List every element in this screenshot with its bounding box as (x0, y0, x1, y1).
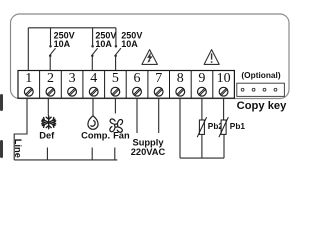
wire: terminal 7 supply (158, 98, 160, 133)
terminal strip block (18, 71, 234, 99)
svg-text:6: 6 (134, 71, 141, 86)
wire: terminal 5 to fan icon (114, 98, 116, 113)
wire: terminal 8 sensor common (179, 98, 181, 158)
wire: sensor bottom bus (180, 157, 224, 159)
svg-text:10A: 10A (121, 39, 138, 49)
wire: Pb2 down to bus (201, 134, 203, 158)
warning triangle W1 (high voltage) (142, 50, 158, 65)
fuse F1 (250V 10A) to terminal 2 (49, 28, 56, 71)
svg-text:10A: 10A (95, 39, 112, 49)
terminal numbers 1-10 (25, 71, 230, 86)
svg-text:Fan: Fan (113, 131, 130, 141)
wire: Pb1 down to bus (223, 134, 225, 158)
svg-text:Def: Def (39, 131, 55, 141)
optional copy-key connector (237, 83, 285, 96)
wire: fan stub (114, 148, 116, 160)
svg-text:Pb1: Pb1 (230, 121, 246, 131)
terminal screws (24, 87, 228, 96)
svg-text:1: 1 (25, 71, 32, 86)
wire: terminal 2 to def icon (47, 98, 49, 115)
svg-text:Comp.: Comp. (81, 131, 110, 141)
svg-text:2: 2 (47, 71, 54, 86)
wire: terminal 9 to Pb2 (201, 98, 203, 120)
thermistor Pb2 (197, 117, 206, 137)
defrost snowflake icon (42, 116, 56, 129)
fan icon (110, 119, 123, 132)
svg-text:Line: Line (13, 139, 23, 158)
scan artifact left edge upper (0, 94, 3, 111)
svg-text:3: 3 (69, 71, 76, 86)
wire: terminal 1 riser (27, 28, 29, 71)
svg-text:9: 9 (198, 71, 205, 86)
svg-text:220VAC: 220VAC (131, 147, 166, 157)
svg-text:Copy key: Copy key (237, 100, 288, 112)
compressor icon (88, 116, 98, 130)
wire: terminal 1 down to line elbow (14, 98, 27, 160)
fuse F2 (250V 10A) to terminal 4 (91, 28, 98, 71)
scan artifact left edge lower (0, 140, 3, 158)
fuse F3 (250V 10A) to terminal 5 (114, 28, 121, 71)
wire: terminal 4 to comp icon (92, 98, 94, 115)
warning triangle W2 (caution) (204, 50, 219, 65)
svg-text:10: 10 (217, 71, 231, 86)
svg-text:(Optional): (Optional) (241, 70, 280, 80)
terminal cell dividers (40, 71, 213, 99)
wire: def stub (46, 148, 48, 160)
svg-text:4: 4 (90, 71, 97, 86)
device case outline (11, 14, 290, 99)
svg-text:7: 7 (155, 71, 162, 86)
svg-text:5: 5 (112, 71, 119, 86)
wire: top bus (28, 27, 116, 29)
wire: comp stub (91, 148, 93, 160)
wire: bottom neutral bus (14, 159, 117, 161)
wire: terminal 6 supply (136, 98, 138, 133)
wire: terminal 10 to Pb1 (223, 98, 225, 120)
svg-text:10A: 10A (54, 39, 71, 49)
svg-text:8: 8 (177, 71, 184, 86)
thermistor Pb1 (219, 117, 228, 137)
